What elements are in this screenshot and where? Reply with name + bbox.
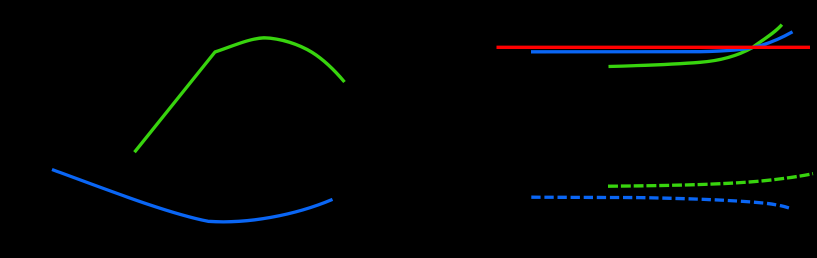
left panel solid green curve [135,38,345,152]
left panel solid blue curve [52,170,333,222]
right panel solid green curve [609,25,782,67]
right panel solid blue curve [531,32,793,52]
right panel red horizontal line [497,46,811,49]
right panel dashed green curve [608,174,813,187]
right panel dashed blue curve [531,197,790,208]
